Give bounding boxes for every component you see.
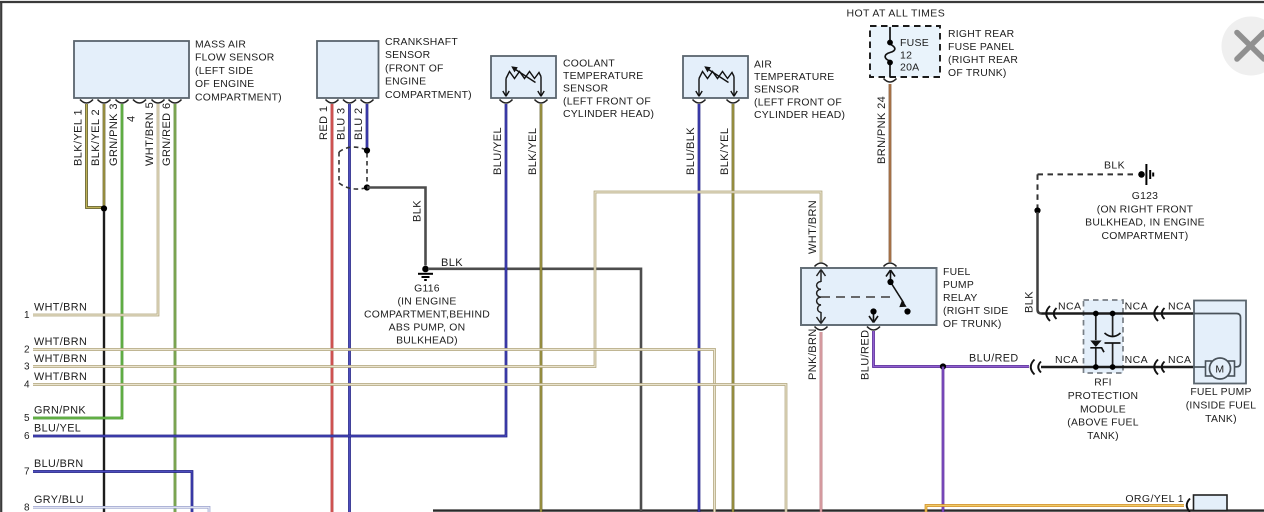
relay coil symbol [817,270,826,324]
svg-text:BLK: BLK [441,257,463,269]
svg-text:NCA: NCA [1055,354,1078,366]
shield drain junction [364,184,370,190]
air temp sensor pin connector [727,100,740,104]
svg-text:WHT/BRN: WHT/BRN [807,200,819,254]
wire BLU crankshaft pin 3 [348,104,351,512]
svg-text:1: 1 [24,310,30,321]
svg-text:BLK/YEL 2: BLK/YEL 2 [90,109,102,166]
wire WHT/BRN pin 5 to circuit 1 [33,104,158,315]
svg-text:BLU 3: BLU 3 [336,107,348,140]
coolant sensor thermistor symbol [503,69,544,97]
svg-text:RED 1: RED 1 [318,106,330,140]
fuse 12 dashed box [870,26,940,77]
relay switch top pin connector [884,263,897,267]
junction BLK/YEL pins 1+2 [101,205,107,211]
relay switch contact [904,308,910,314]
top border line [0,1,1264,3]
relay coil bottom pin connector [815,327,828,331]
wire BRN/PNK 24 fuse to relay [889,84,892,262]
svg-text:BLU/YEL: BLU/YEL [34,423,81,435]
wire GRN/RED pin 6 [174,104,177,512]
svg-text:GRN/PNK 3: GRN/PNK 3 [108,103,120,166]
svg-text:BLU/BLK: BLU/BLK [685,127,697,175]
svg-text:NCA: NCA [1125,354,1148,366]
wire BLU crankshaft pin 2 [366,104,369,148]
svg-text:4: 4 [24,380,30,391]
RFI bottom-left junction [1093,364,1099,370]
svg-text:BLK: BLK [1024,291,1036,313]
svg-text:WHT/BRN: WHT/BRN [34,336,87,348]
fuel pump motor M [1210,358,1231,379]
cable shield dashed capsule [339,147,367,189]
relay dashed actuation line [821,296,895,298]
svg-text:BLU/YEL: BLU/YEL [492,127,504,175]
svg-text:ORG/YEL 1: ORG/YEL 1 [1125,493,1184,505]
wire BLK/YEL air temp sensor [732,104,735,512]
svg-text:M: M [1215,364,1224,376]
wire BLU/BRN circuit 7 [33,472,192,512]
zener diode [1090,341,1101,348]
svg-text:WHT/BRN 5: WHT/BRN 5 [144,102,156,166]
wire BLK continuation of MAF pins 1+2 [103,211,105,512]
fuse output pin connector [884,79,897,83]
capacitor [1105,333,1121,337]
svg-text:BLK: BLK [1104,160,1125,172]
wire BLK/YEL pin 2 [103,104,106,206]
svg-text:5: 5 [24,413,30,424]
wire ORG/YEL 1 [926,506,1184,512]
fuel pump motor brushes [1206,361,1212,376]
junction BLK dashed/solid [1034,207,1040,213]
relay output node [870,308,876,314]
wire BLK from G116 junction [428,269,641,512]
junction at G116 [422,266,429,273]
bottom NCA line [1041,366,1194,368]
wire BLK down to NCA line [1038,212,1042,314]
relay switch pivot [887,279,893,285]
top NCA line BLK [1042,312,1195,314]
wire GRY/BLU circuit 8 [33,507,209,512]
RFI top-right junction [1110,311,1116,317]
svg-text:NCA: NCA [1168,301,1191,313]
wire BLK shield drain to G116 [367,188,426,266]
svg-text:PNK/BRN: PNK/BRN [807,328,819,380]
svg-text:BLK/YEL: BLK/YEL [719,128,731,175]
svg-text:BRN/PNK 24: BRN/PNK 24 [876,96,888,164]
svg-text:7: 7 [24,467,30,478]
svg-text:WHT/BRN: WHT/BRN [34,302,87,314]
wire GRN/PNK pin 3 to circuit 5 [33,104,122,418]
svg-text:6: 6 [24,431,30,442]
wire BLU/YEL coolant sensor to circuit 6 [33,104,506,436]
air temperature sensor box [683,56,748,98]
G123 ground dot [1138,171,1145,178]
coolant sensor pin connector [535,100,548,104]
air temp sensor pin connector [693,100,706,104]
svg-text:BLK/YEL 1: BLK/YEL 1 [73,109,85,166]
relay switch symbol [869,270,904,323]
left border line [0,1,2,512]
MAF pin 3 connector [116,100,129,104]
svg-text:8: 8 [24,502,30,512]
RFI internal wires [1096,314,1113,368]
fuse bottom terminal [887,60,893,66]
relay coil top pin connector [815,263,828,267]
connector bottom line left [1031,360,1041,375]
RFI bottom-right junction [1110,364,1116,370]
air temp sensor thermistor symbol [696,69,737,97]
wire RED crankshaft pin 1 [331,104,334,512]
svg-text:NCA: NCA [1058,301,1081,313]
junction BLU/RED [940,363,946,369]
relay switch output pin connector [867,327,880,331]
wire BLU/RED down to connector [942,367,945,512]
MAF pin 2 connector [98,100,111,104]
svg-text:GRN/PNK: GRN/PNK [34,405,86,417]
bottom partial border line [433,509,1264,511]
svg-text:3: 3 [24,362,30,373]
crankshaft sensor box [317,41,379,98]
svg-text:BLK: BLK [412,200,424,222]
wire PNK/BRN relay coil return [820,332,823,512]
svg-text:BLU/RED: BLU/RED [969,353,1019,365]
coolant temperature sensor box [491,56,556,98]
coolant sensor pin connector [500,100,513,104]
fuel pump relay box [801,268,937,325]
bottom right connector box [1194,495,1228,511]
MAF pin 5 connector [152,100,165,104]
wire WHT/BRN circuit 3 to relay coil [33,192,821,367]
fuse element symbol [885,27,895,77]
svg-text:4: 4 [126,115,138,122]
mass air flow sensor box [74,41,189,98]
svg-text:BLU 2: BLU 2 [353,107,365,140]
crankshaft sensor pin connector [343,100,356,104]
svg-text:GRY/BLU: GRY/BLU [34,494,84,506]
svg-text:GRN/RED 6: GRN/RED 6 [161,103,173,167]
wire BLU/RED relay output [874,331,1030,367]
MAF pin 1 connector [80,100,93,104]
close button [1222,17,1264,76]
shield top junction [364,147,370,153]
crankshaft sensor pin connector [361,100,374,104]
ground G116 symbol [418,274,433,280]
RFI protection module dashed box [1084,300,1124,373]
connector top line left [1046,306,1056,321]
svg-text:BLU/BRN: BLU/BRN [34,458,84,470]
fuel pump box [1194,301,1246,384]
svg-text:BLU/RED: BLU/RED [860,330,872,380]
crankshaft sensor pin connector [326,100,339,104]
wire BLU/BLK air temp sensor [698,104,701,512]
wire WHT/BRN circuit 4 [33,385,786,512]
MAF pin 4 connector [133,100,146,104]
wire BLK dashed to G123 [1038,173,1137,175]
svg-text:NCA: NCA [1168,354,1191,366]
connector ORG/YEL [1187,499,1190,512]
fuse top terminal [887,40,893,46]
wire BLK/YEL pin 1 [87,104,103,208]
svg-text:WHT/BRN: WHT/BRN [34,353,87,365]
svg-text:NCA: NCA [1125,301,1148,313]
MAF pin 6 connector [169,100,182,104]
svg-text:2: 2 [24,345,30,356]
svg-text:HOT AT ALL TIMES: HOT AT ALL TIMES [847,8,946,20]
svg-text:WHT/BRN: WHT/BRN [34,371,87,383]
connector top line right [1154,306,1164,321]
connector bottom line right [1154,360,1164,375]
wire BLK/YEL coolant sensor [540,104,543,512]
ground G123 symbol [1146,164,1153,185]
fuel pump internal wiring [1194,314,1241,367]
wire WHT/BRN circuit 2 [33,350,715,512]
RFI top-left junction [1093,311,1099,317]
svg-text:BLK/YEL: BLK/YEL [527,128,539,175]
